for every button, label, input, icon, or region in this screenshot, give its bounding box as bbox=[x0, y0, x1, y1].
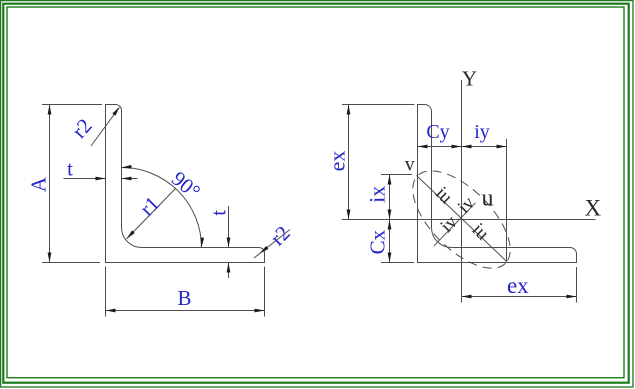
dim Cx extension bottom bbox=[381, 262, 415, 264]
inertia ellipse bbox=[396, 154, 526, 284]
svg-text:Y: Y bbox=[462, 67, 477, 91]
dim B line bbox=[106, 310, 265, 312]
dim A extension line top bbox=[42, 104, 102, 106]
dim ex-left line bbox=[348, 105, 350, 220]
dim t vertical bottom tail bbox=[228, 263, 230, 279]
dim ix extension bbox=[381, 174, 412, 176]
dim A arrow down bbox=[48, 253, 52, 263]
90 degree arc bbox=[122, 168, 202, 248]
dim B extension left bbox=[105, 267, 107, 317]
svg-text:B: B bbox=[177, 286, 191, 310]
svg-text:t: t bbox=[67, 157, 73, 181]
u axis diagonal bbox=[434, 203, 476, 246]
dim B arrow right bbox=[255, 309, 265, 313]
dim B extension right bbox=[264, 267, 266, 317]
arc arrow left end bbox=[122, 165, 132, 169]
dim ex-left extension top bbox=[342, 104, 415, 106]
svg-text:iy: iy bbox=[474, 121, 490, 143]
dim ex-bottom line bbox=[462, 296, 577, 298]
svg-text:ix: ix bbox=[364, 186, 389, 203]
dim ex-bottom extension right bbox=[576, 267, 578, 303]
dim t line right tail bbox=[122, 178, 138, 180]
dim A arrow up bbox=[48, 105, 52, 115]
dim Cy line bbox=[418, 146, 462, 148]
dim t arrow right bbox=[96, 177, 106, 181]
svg-text:Cx: Cx bbox=[365, 229, 389, 254]
dim t vertical top tail bbox=[228, 206, 230, 248]
Y axis bbox=[461, 80, 463, 303]
X axis bbox=[342, 219, 596, 221]
dim ix line bbox=[389, 175, 391, 220]
leader r2 right bbox=[254, 230, 290, 259]
dim t line left bbox=[64, 178, 106, 180]
svg-text:ex: ex bbox=[507, 273, 529, 298]
dim iy extension right bbox=[506, 139, 508, 262]
svg-text:X: X bbox=[584, 196, 601, 221]
dim A extension line bottom bbox=[42, 262, 100, 264]
angle profile outline (left view) bbox=[106, 105, 265, 263]
leader r1 bbox=[127, 188, 177, 239]
svg-text:v: v bbox=[405, 155, 415, 176]
svg-text:ex: ex bbox=[324, 151, 349, 172]
dim Cx line bbox=[389, 220, 391, 263]
dim B arrow left bbox=[106, 309, 116, 313]
leader r2 top bbox=[91, 108, 119, 146]
dim t arrow left bbox=[122, 177, 132, 181]
v axis diagonal bbox=[417, 176, 508, 262]
dim A line bbox=[49, 105, 51, 263]
svg-text:u: u bbox=[482, 185, 494, 211]
arc arrow bottom end bbox=[200, 237, 204, 247]
angle profile outline (right view) bbox=[418, 105, 577, 263]
svg-text:Cy: Cy bbox=[426, 121, 449, 143]
svg-text:A: A bbox=[27, 176, 51, 192]
svg-text:t: t bbox=[207, 210, 231, 216]
dim iy line bbox=[462, 146, 507, 148]
